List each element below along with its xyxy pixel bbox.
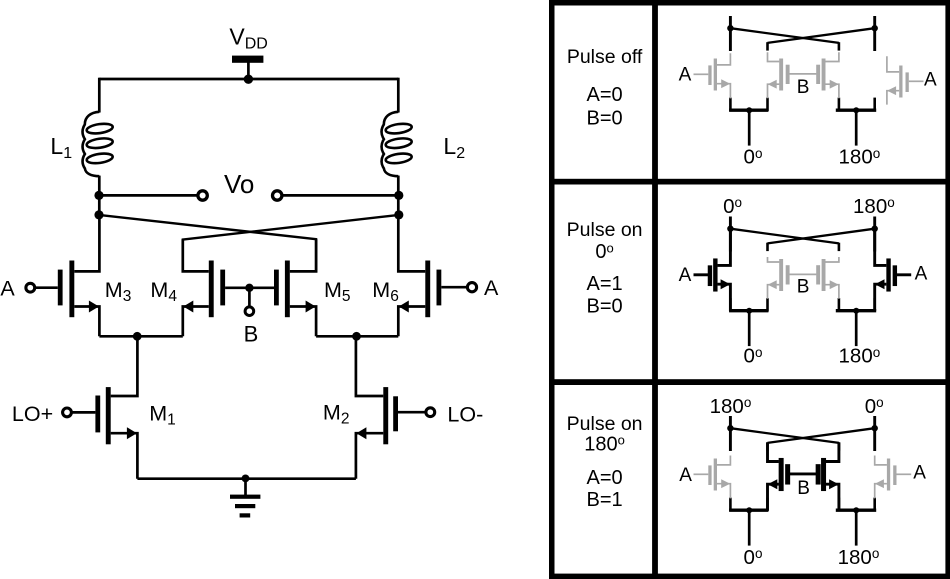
label LO+ (12, 402, 53, 426)
wire bottom rail (137, 477, 356, 480)
wire common right (316, 335, 398, 338)
svg-text:A: A (679, 465, 692, 486)
label M2 (323, 401, 350, 428)
label Pulse on row3 (567, 413, 643, 435)
label B (244, 322, 259, 347)
svg-text:B: B (244, 322, 259, 347)
label L1 (50, 133, 72, 162)
row1 label A left (679, 65, 692, 86)
svg-text:B: B (797, 277, 810, 298)
row2 transistor A-left (on) (694, 229, 731, 312)
svg-text:Pulse on: Pulse on (567, 219, 643, 241)
wire B stem (248, 288, 251, 307)
node right output (394, 191, 403, 200)
label 180deg row3 (584, 433, 625, 456)
ground symbol (230, 478, 260, 517)
svg-text:A: A (924, 69, 937, 90)
svg-text:Pulse on: Pulse on (567, 413, 643, 435)
row1 wire B gate (789, 73, 816, 75)
wire Vo right tap (282, 194, 398, 197)
svg-text:A: A (679, 265, 692, 286)
row1 transistor A-right (off, detached) (887, 56, 924, 104)
label L2 (443, 133, 465, 162)
row3 mini wiring (727, 416, 878, 546)
row2 label A left (679, 265, 692, 286)
power VDD symbol (232, 56, 263, 80)
row1 transistor B-right (off) (816, 52, 839, 98)
row2 label 180deg bottom (839, 345, 881, 368)
row3 label 0deg bottom (744, 546, 763, 569)
wire right branch lower (397, 176, 400, 216)
svg-text:A: A (484, 276, 499, 300)
label A=1 row2 (587, 273, 623, 295)
transistor M6 (398, 215, 467, 336)
row3 transistor A-right (off) (875, 456, 912, 499)
label M4 (150, 278, 177, 305)
row2 transistor B-left (off) (768, 257, 790, 299)
svg-text:A=0: A=0 (587, 467, 623, 489)
svg-text:A: A (679, 65, 692, 86)
svg-text:A: A (913, 462, 926, 483)
label Pulse off (567, 46, 643, 68)
label VDD (229, 24, 267, 53)
row3 transistor B-right (on) (816, 443, 839, 511)
output terminal Vo left (198, 191, 207, 200)
label M3 (105, 278, 132, 305)
wire cross-coupling left-to-M5 (99, 215, 316, 272)
junction VDD node (244, 75, 253, 84)
wire top rail (99, 78, 398, 81)
terminal B (245, 307, 254, 316)
row1 label A right (924, 69, 937, 90)
row2 label 0deg bottom (744, 345, 763, 368)
svg-text:B=0: B=0 (587, 295, 623, 317)
transistor M1 (72, 336, 138, 478)
row3 transistor A-left (off) (694, 456, 731, 499)
label B=0 row2 (587, 295, 623, 317)
node left output (94, 191, 103, 200)
node B junction (245, 284, 253, 292)
table row divider 2 (549, 379, 950, 385)
row1 label 180deg bottom (839, 146, 881, 169)
label M1 (149, 402, 176, 429)
label M5 (324, 278, 351, 305)
node common right (352, 332, 361, 341)
row3 wire B gate (789, 472, 816, 475)
row1 label B (797, 77, 810, 98)
output terminal Vo right (273, 191, 282, 200)
label LO- (447, 402, 483, 426)
node left cross (94, 210, 103, 219)
row2 mini wiring (727, 217, 878, 347)
wire right branch upper (397, 78, 400, 113)
row1 mini wiring (727, 16, 878, 146)
row2 label 0deg top (723, 195, 742, 218)
svg-text:LO+: LO+ (12, 402, 53, 426)
label 0deg row2 (595, 240, 613, 263)
node common left (133, 332, 142, 341)
transistor M3 (35, 215, 100, 336)
svg-text:Pulse off: Pulse off (567, 46, 643, 68)
svg-text:B: B (797, 478, 810, 499)
label B=1 row3 (587, 489, 623, 511)
label A left (0, 276, 15, 300)
svg-text:A: A (915, 264, 928, 285)
wire Vo left tap (99, 194, 197, 197)
label A=0 row3 (587, 467, 623, 489)
row3 label 180deg top (710, 395, 752, 418)
row2 transistor A-right (on) (875, 229, 912, 312)
svg-text:B: B (797, 77, 810, 98)
row3 label A left (679, 465, 692, 486)
table outer border (549, 0, 950, 579)
table column divider (652, 0, 658, 579)
row2 wire B gate (789, 273, 816, 275)
terminal A left (26, 283, 35, 292)
wire left branch lower (98, 176, 101, 216)
node right cross (394, 210, 403, 219)
svg-text:A: A (0, 276, 15, 300)
transistor M4 (183, 239, 246, 336)
svg-text:LO-: LO- (447, 402, 483, 426)
transistor M5 (253, 239, 316, 336)
node ground junction (242, 475, 250, 483)
row1 transistor A-left (off) (694, 53, 731, 98)
row3 label 0deg top (865, 395, 884, 418)
terminal LO- (426, 408, 435, 417)
row1 transistor B-left (off) (768, 52, 790, 98)
inductor L1 (83, 112, 114, 176)
table row divider 1 (549, 179, 950, 185)
svg-text:B=1: B=1 (587, 489, 623, 511)
row2 label A right (915, 264, 928, 285)
label M6 (372, 278, 399, 305)
label A=0 row1 (587, 84, 623, 106)
terminal A right (467, 283, 476, 292)
row1 label 0deg bottom (744, 146, 763, 169)
transistor M2 (356, 336, 426, 478)
row2 label 180deg top (853, 195, 895, 218)
svg-text:A=1: A=1 (587, 273, 623, 295)
row3 transistor B-left (on) (768, 443, 791, 511)
wire common left (99, 335, 182, 338)
row3 label A right (913, 462, 926, 483)
wire cross-coupling right-to-M4 (183, 215, 399, 272)
row2 label B (797, 277, 810, 298)
svg-text:Vo: Vo (224, 169, 254, 199)
inductor L2 (382, 112, 413, 176)
row2 transistor B-right (off) (816, 257, 839, 299)
row3 label 180deg bottom (838, 546, 880, 569)
terminal LO+ (63, 408, 72, 417)
label Vo (224, 169, 254, 199)
label Pulse on row2 (567, 219, 643, 241)
svg-text:B=0: B=0 (587, 108, 623, 130)
label B=0 row1 (587, 108, 623, 130)
svg-text:A=0: A=0 (587, 84, 623, 106)
row3 label B (797, 478, 810, 499)
wire left branch upper (98, 78, 101, 113)
label A right (484, 276, 499, 300)
